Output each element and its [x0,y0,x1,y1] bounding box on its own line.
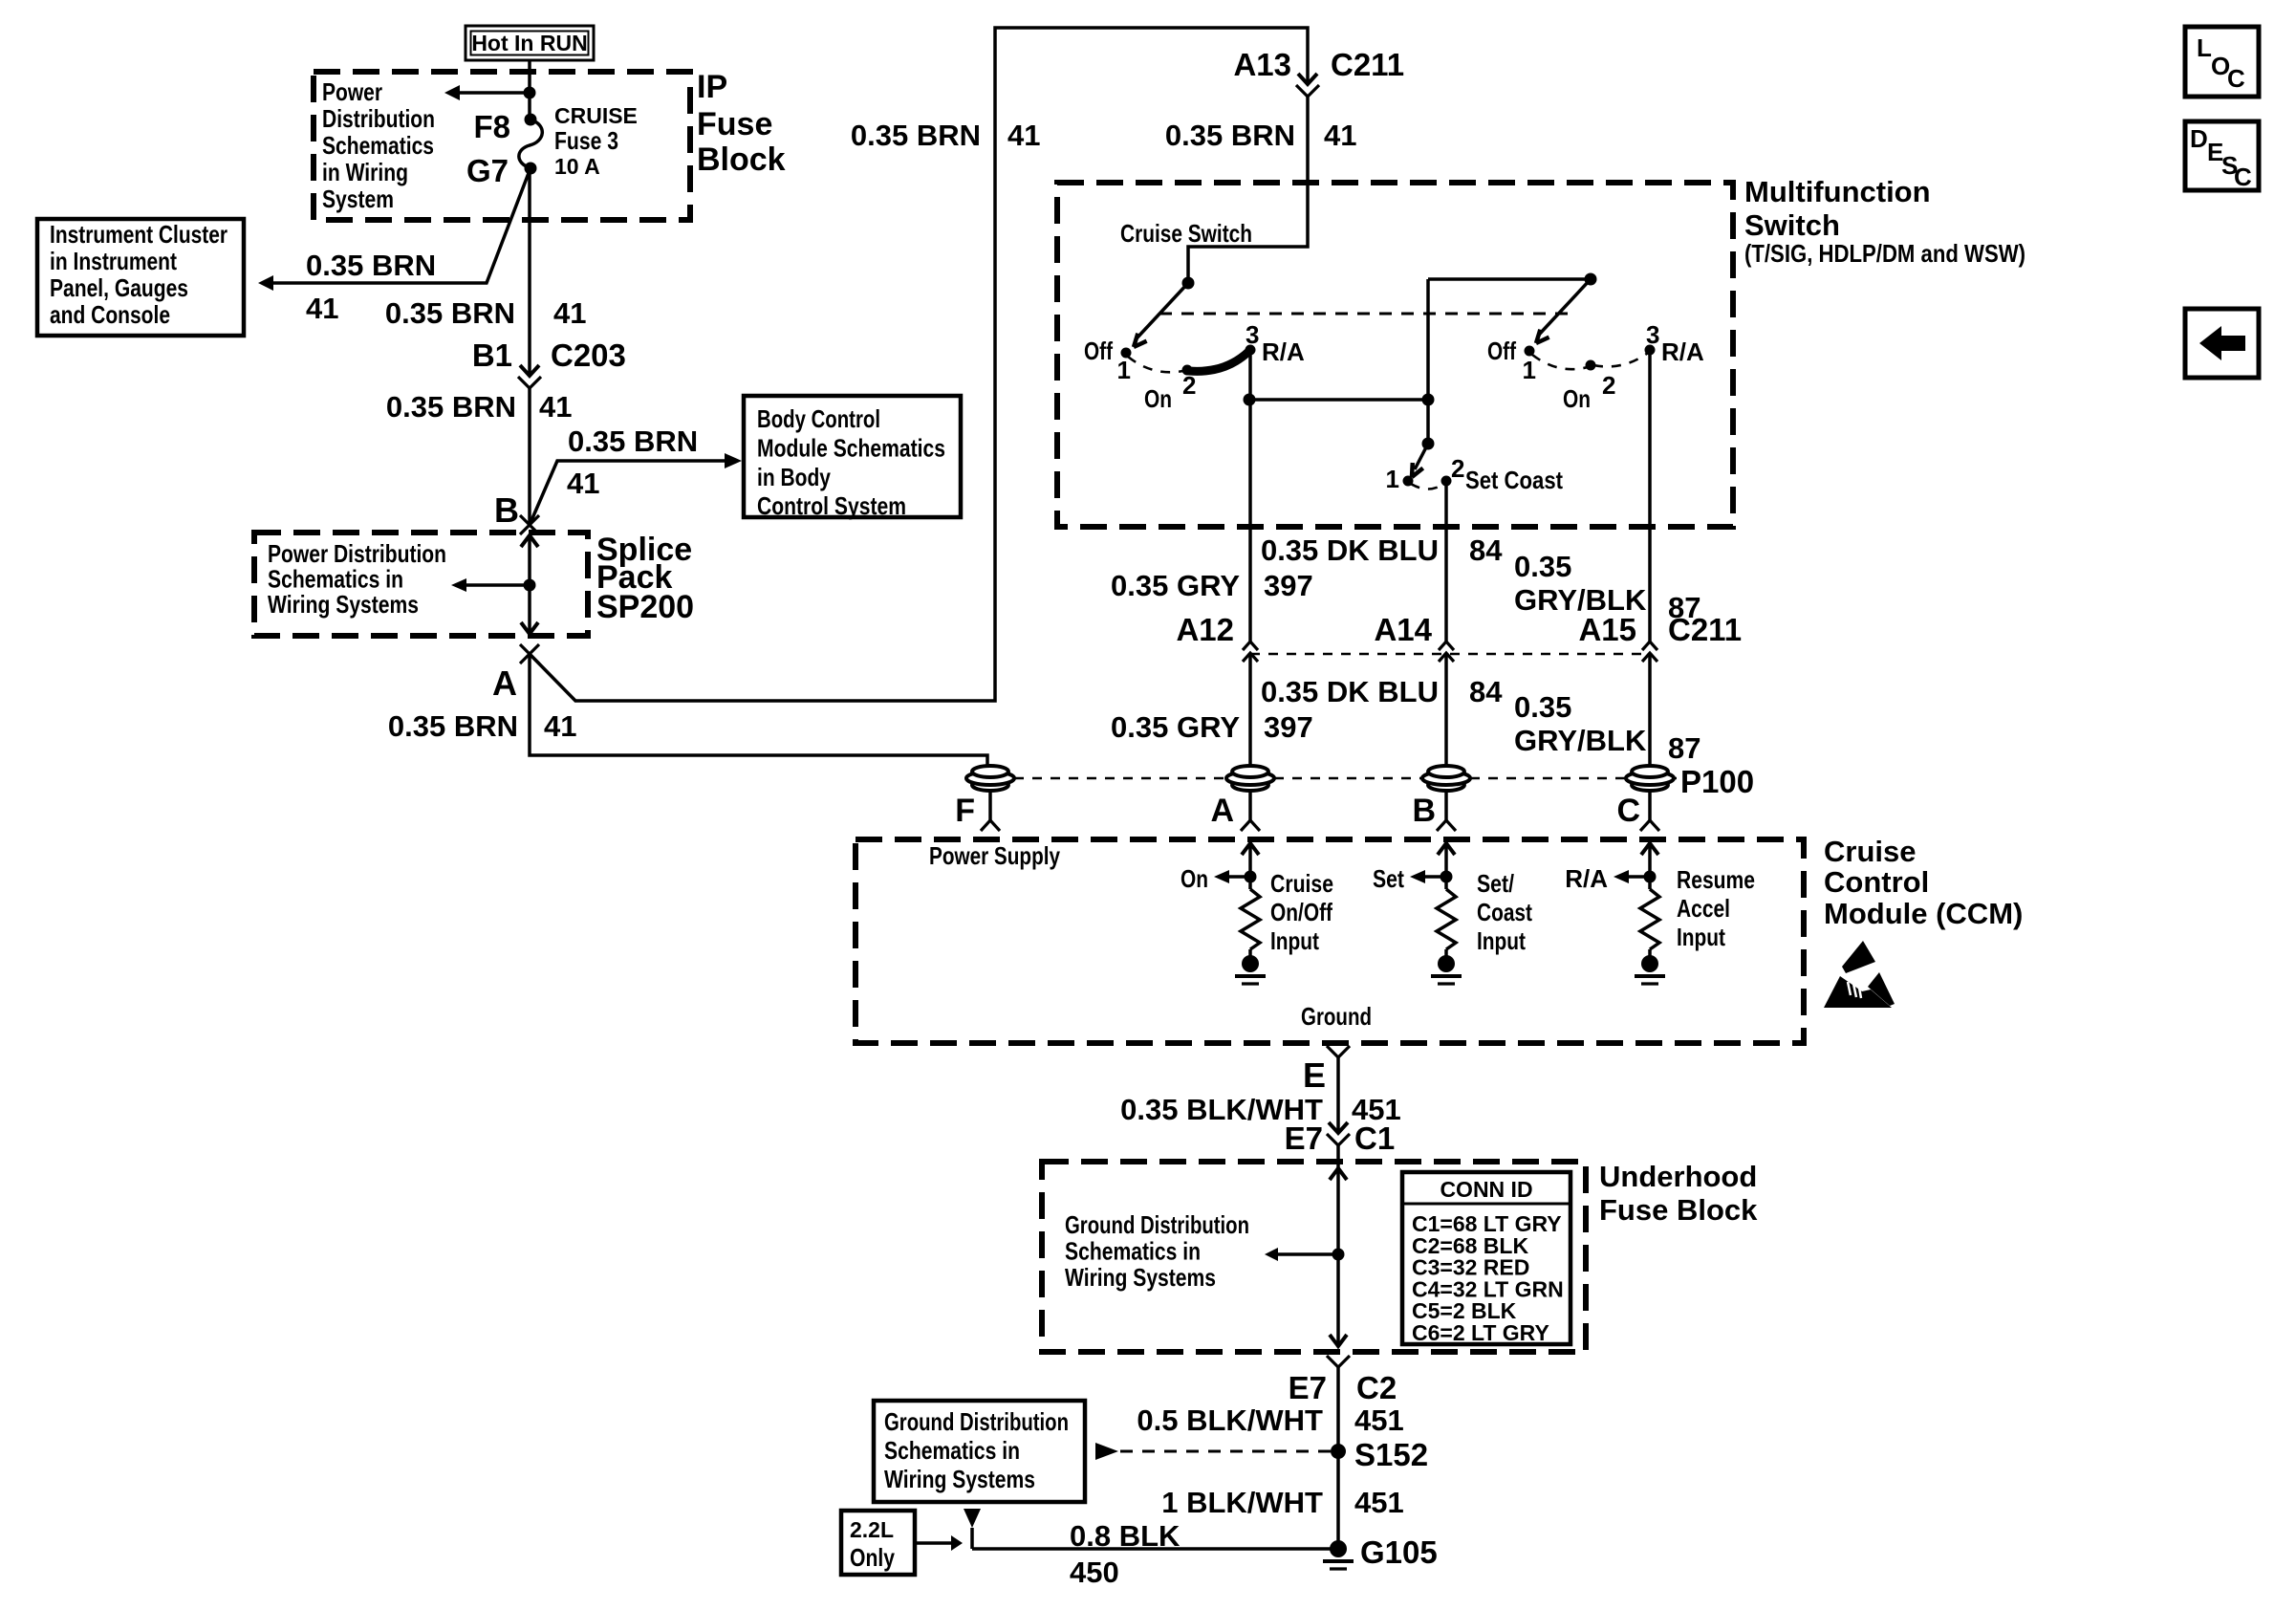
svg-text:C: C [2227,64,2245,93]
svg-text:0.35: 0.35 [1514,550,1571,583]
svg-text:0.35 BRN: 0.35 BRN [385,296,515,330]
svg-text:Power: Power [322,77,382,106]
svg-text:Module Schematics: Module Schematics [757,433,945,462]
svg-text:G105: G105 [1360,1534,1438,1570]
svg-text:in Wiring: in Wiring [322,158,408,186]
svg-text:G7: G7 [466,153,509,188]
svg-text:Underhood: Underhood [1599,1160,1757,1193]
svg-text:0.35 BRN: 0.35 BRN [306,249,436,282]
svg-text:2.2L: 2.2L [850,1517,894,1542]
svg-text:Module (CCM): Module (CCM) [1824,897,2023,930]
svg-text:451: 451 [1354,1486,1404,1519]
svg-text:Off: Off [1084,337,1113,365]
svg-text:41: 41 [539,390,572,424]
svg-text:CRUISE: CRUISE [554,103,638,128]
svg-text:0.35 DK BLU: 0.35 DK BLU [1261,675,1439,708]
svg-text:C: C [1616,793,1640,829]
svg-text:Block: Block [697,141,786,178]
svg-text:450: 450 [1070,1556,1119,1589]
svg-text:C203: C203 [551,337,626,373]
svg-text:0.35 DK BLU: 0.35 DK BLU [1261,533,1439,567]
svg-text:0.35 BRN: 0.35 BRN [388,709,518,743]
svg-text:3: 3 [1646,320,1659,349]
svg-text:Off: Off [1487,337,1516,365]
svg-text:C1: C1 [1354,1120,1395,1156]
svg-text:Cruise: Cruise [1270,869,1333,898]
svg-text:Schematics in: Schematics in [268,565,403,594]
svg-text:C2: C2 [1356,1370,1397,1405]
svg-text:Fuse 3: Fuse 3 [554,126,618,155]
svg-text:C: C [2234,163,2252,191]
svg-text:GRY/BLK: GRY/BLK [1514,724,1647,757]
svg-text:IP: IP [697,69,727,105]
svg-text:84: 84 [1469,675,1503,708]
svg-text:Power Supply: Power Supply [929,841,1060,870]
svg-text:10 A: 10 A [554,154,600,179]
svg-text:Coast: Coast [1477,898,1532,926]
svg-text:Set Coast: Set Coast [1465,466,1563,494]
svg-text:Ground Distribution: Ground Distribution [1065,1210,1249,1239]
svg-text:B: B [494,490,519,530]
svg-text:Accel: Accel [1677,894,1730,923]
svg-text:41: 41 [544,709,576,743]
svg-text:P100: P100 [1680,764,1754,799]
svg-text:41: 41 [553,296,586,330]
svg-text:Resume: Resume [1677,865,1755,894]
svg-text:Fuse Block: Fuse Block [1599,1193,1758,1227]
svg-text:41: 41 [306,292,338,325]
svg-text:1: 1 [1117,356,1131,384]
svg-text:R/A: R/A [1661,337,1704,366]
svg-text:in Body: in Body [757,463,831,491]
svg-text:E7: E7 [1285,1120,1323,1156]
svg-text:On: On [1144,384,1172,413]
svg-text:SP200: SP200 [596,589,694,625]
svg-text:CONN ID: CONN ID [1440,1177,1532,1202]
svg-text:Schematics: Schematics [322,131,434,160]
svg-text:2: 2 [1182,371,1196,400]
svg-text:Power Distribution: Power Distribution [268,539,446,568]
svg-text:Only: Only [850,1543,895,1572]
svg-text:Cruise Switch: Cruise Switch [1120,219,1252,248]
svg-text:451: 451 [1354,1403,1404,1437]
svg-text:On/Off: On/Off [1270,898,1332,926]
svg-text:Input: Input [1270,926,1319,955]
svg-text:Cruise: Cruise [1824,835,1916,868]
svg-text:1 BLK/WHT: 1 BLK/WHT [1161,1486,1323,1519]
svg-text:System: System [322,185,394,213]
svg-text:A13: A13 [1233,47,1291,82]
svg-text:A12: A12 [1176,612,1234,647]
svg-text:41: 41 [1324,119,1356,152]
svg-text:Wiring Systems: Wiring Systems [884,1465,1035,1493]
svg-text:Schematics in: Schematics in [884,1436,1020,1465]
svg-text:0.5 BLK/WHT: 0.5 BLK/WHT [1137,1403,1323,1437]
svg-text:0.35 GRY: 0.35 GRY [1111,569,1240,602]
svg-text:397: 397 [1264,710,1313,744]
svg-text:2: 2 [1451,454,1464,483]
svg-text:L: L [2197,33,2212,62]
svg-text:Control System: Control System [757,491,906,520]
svg-text:Wiring Systems: Wiring Systems [1065,1263,1216,1292]
svg-text:E: E [1303,1055,1326,1095]
svg-text:C211: C211 [1331,47,1404,82]
svg-text:F8: F8 [473,109,510,144]
svg-text:A15: A15 [1578,612,1636,647]
svg-text:Schematics in: Schematics in [1065,1237,1201,1266]
svg-text:Hot In RUN: Hot In RUN [471,31,587,55]
svg-text:0.35 BRN: 0.35 BRN [386,390,516,424]
svg-text:84: 84 [1469,533,1503,567]
svg-text:and Console: and Console [50,300,170,329]
svg-text:0.8 BLK: 0.8 BLK [1070,1519,1180,1553]
svg-text:A14: A14 [1374,612,1432,647]
svg-text:Instrument Cluster: Instrument Cluster [50,220,227,249]
svg-text:On: On [1180,864,1208,893]
svg-text:Body Control: Body Control [757,404,880,433]
svg-text:S152: S152 [1354,1437,1428,1472]
svg-text:0.35: 0.35 [1514,690,1571,724]
svg-text:Wiring Systems: Wiring Systems [268,590,419,619]
svg-text:0.35 GRY: 0.35 GRY [1111,710,1240,744]
svg-text:0.35 BRN: 0.35 BRN [568,424,698,458]
svg-text:Set/: Set/ [1477,869,1514,898]
svg-text:0.35 BRN: 0.35 BRN [851,119,981,152]
svg-text:in Instrument: in Instrument [50,247,177,275]
svg-text:B1: B1 [472,337,512,373]
svg-text:41: 41 [567,467,599,500]
svg-text:F: F [955,793,975,829]
svg-text:87: 87 [1668,731,1700,765]
svg-text:3: 3 [1245,320,1259,349]
svg-text:1: 1 [1386,465,1399,493]
svg-text:A: A [1210,793,1234,829]
svg-text:D: D [2190,124,2208,153]
svg-text:Ground Distribution: Ground Distribution [884,1407,1069,1436]
svg-text:Control: Control [1824,865,1929,899]
svg-text:0.35 BRN: 0.35 BRN [1165,119,1295,152]
svg-text:B: B [1412,793,1436,829]
svg-text:Switch: Switch [1744,208,1840,242]
svg-text:C211: C211 [1668,612,1742,647]
svg-text:C6=2 LT GRY: C6=2 LT GRY [1412,1320,1549,1345]
svg-text:Input: Input [1677,923,1725,951]
svg-text:2: 2 [1602,371,1615,400]
svg-text:On: On [1563,384,1591,413]
svg-text:Ground: Ground [1301,1002,1372,1031]
svg-text:Distribution: Distribution [322,104,435,133]
svg-text:1: 1 [1523,356,1536,384]
svg-text:Fuse: Fuse [697,106,772,142]
svg-text:41: 41 [1007,119,1040,152]
svg-text:R/A: R/A [1262,337,1305,366]
svg-text:E7: E7 [1289,1370,1327,1405]
svg-text:397: 397 [1264,569,1313,602]
svg-text:Multifunction: Multifunction [1744,175,1931,208]
svg-text:R/A: R/A [1565,864,1608,893]
svg-text:A: A [492,664,517,703]
svg-text:Set: Set [1373,864,1404,893]
svg-text:Input: Input [1477,926,1526,955]
svg-text:(T/SIG, HDLP/DM and WSW): (T/SIG, HDLP/DM and WSW) [1744,239,2025,268]
svg-text:Panel, Gauges: Panel, Gauges [50,273,188,302]
